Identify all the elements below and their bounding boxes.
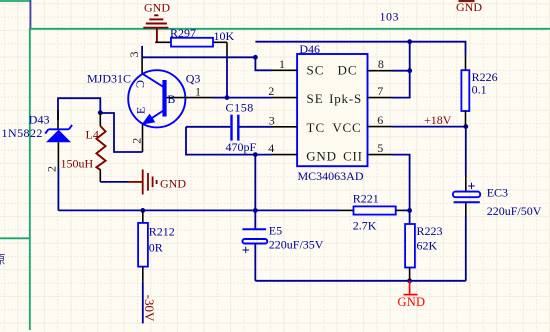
capacitor C158 [186, 115, 272, 141]
svg-text:R221: R221 [353, 191, 379, 205]
svg-text:D43: D43 [29, 112, 50, 126]
wire diode top loop [58, 98, 100, 120]
svg-text:EC3: EC3 [487, 185, 508, 199]
wire top VCC run [255, 42, 465, 55]
net label 103 [380, 10, 400, 24]
pin name Ipk-S [329, 91, 362, 106]
net label GND (overline) top right [456, 0, 482, 14]
wire collector horizontal [142, 56, 255, 58]
svg-text:B: B [167, 92, 175, 106]
value 220uF/50V [487, 204, 542, 218]
value 62K [417, 239, 438, 253]
pin Q3 base [167, 97, 213, 99]
green bus horizontal lower-left [0, 237, 30, 239]
designator R223 [417, 224, 443, 238]
pin 2 [272, 97, 297, 99]
wire ground rail lower [255, 280, 465, 282]
pin number 2 (Q3 emitter) [129, 138, 143, 144]
resistor R223 [405, 210, 415, 280]
svg-text:CII: CII [343, 149, 363, 164]
pin diode anode [57, 142, 59, 168]
svg-text:L4: L4 [86, 128, 99, 142]
svg-text:-30V: -30V [142, 295, 157, 322]
svg-text:2: 2 [44, 166, 58, 172]
svg-text:7: 7 [377, 84, 383, 98]
resistor R212 [138, 210, 148, 281]
diode D43 (schottky) [45, 125, 72, 142]
pin number 8 [378, 57, 384, 71]
polarity + (E5) [242, 244, 250, 259]
value 470pF [226, 140, 257, 154]
power port GND bottom [404, 281, 418, 295]
wire TC loop to GND pin [186, 127, 272, 155]
svg-text:0R: 0R [149, 240, 163, 254]
net label -30V [142, 295, 157, 322]
designator D43 [29, 112, 50, 126]
net label 原 (clipped) [0, 253, 6, 267]
pin name VCC [332, 120, 361, 135]
part name 1N5822 [2, 126, 43, 140]
svg-text:Ipk-S: Ipk-S [329, 91, 362, 106]
pin 1 [272, 69, 297, 71]
wire node to pin2 [227, 97, 272, 99]
resistor R226 [461, 55, 469, 127]
part name MC34063AD [298, 169, 364, 183]
power port GND top (label) [144, 1, 170, 15]
svg-text:TC: TC [307, 120, 326, 135]
value 150uH [61, 156, 94, 170]
svg-text:原: 原 [0, 253, 6, 267]
designator R226 [472, 70, 498, 84]
svg-text:2.7K: 2.7K [353, 219, 377, 233]
pin L4 bottom [99, 170, 101, 182]
svg-text:MC34063AD: MC34063AD [298, 169, 364, 183]
svg-text:Q3: Q3 [186, 71, 201, 85]
pin name DC [337, 63, 357, 78]
green bus horizontal main [30, 28, 550, 30]
wire node down to E5 [254, 155, 256, 211]
pin name GND [306, 149, 337, 164]
wire pin6 to +18V node [392, 126, 466, 128]
pin 5 [368, 154, 393, 156]
svg-text:R223: R223 [417, 224, 443, 238]
pin 8 [368, 70, 393, 72]
inductor L4 [96, 126, 105, 170]
svg-text:220uF/35V: 220uF/35V [269, 237, 324, 251]
value 2.7K [353, 219, 377, 233]
svg-text:8: 8 [378, 57, 384, 71]
designator L4 [86, 128, 99, 142]
pin 4 [272, 154, 297, 156]
pin 6 [368, 126, 393, 128]
svg-text:150uH: 150uH [61, 156, 94, 170]
junction node diode/L4 [98, 110, 103, 115]
svg-text:2: 2 [129, 138, 143, 144]
svg-text:SE: SE [307, 91, 324, 106]
label R297 [170, 26, 196, 40]
svg-text:10K: 10K [214, 29, 235, 43]
pin Q3 collector [141, 46, 143, 74]
junction node pin4/E5 [253, 152, 258, 157]
pin number 1 [279, 57, 285, 71]
svg-text:+18V: +18V [424, 113, 452, 127]
pin name TC [307, 120, 326, 135]
svg-text:E5: E5 [269, 224, 282, 238]
ground symbol top (inverted earth) [143, 15, 168, 42]
junction node pin8 [407, 68, 412, 73]
svg-text:3: 3 [269, 113, 275, 127]
pin number 7 [377, 84, 383, 98]
svg-text:SC: SC [307, 63, 325, 78]
wire pin8 to node [392, 70, 410, 72]
svg-text:5: 5 [377, 141, 383, 155]
pin number 5 [377, 141, 383, 155]
junction node GND rail [407, 278, 412, 283]
svg-text:MJD31C: MJD31C [87, 71, 131, 85]
pin number 3 [269, 113, 275, 127]
designator D46 [299, 42, 320, 56]
svg-text:103: 103 [380, 10, 400, 24]
value 0R [149, 240, 163, 254]
svg-text:C: C [133, 80, 147, 88]
wire L4 to ground [100, 181, 142, 183]
net label +18V [424, 113, 452, 127]
svg-text:2: 2 [268, 84, 274, 98]
pin number 2 [268, 84, 274, 98]
pin name SC [307, 63, 325, 78]
designator R212 [149, 224, 175, 238]
svg-text:220uF/50V: 220uF/50V [487, 204, 542, 218]
label C (collector) [133, 80, 147, 88]
op IC D46 MC34063AD body [297, 54, 367, 166]
junction node top wire [407, 39, 412, 44]
svg-text:R212: R212 [149, 224, 175, 238]
designator R221 [353, 191, 379, 205]
wire emitter Z-route [100, 113, 142, 152]
junction node base/SE [225, 95, 230, 100]
pin L4 top [99, 113, 101, 126]
svg-text:GND: GND [398, 295, 426, 309]
svg-text:C158: C158 [226, 100, 254, 114]
pin 7 [368, 97, 393, 99]
svg-text:0.1: 0.1 [472, 83, 487, 97]
wire bottom rail [58, 209, 353, 211]
svg-text:DC: DC [337, 63, 357, 78]
label B (base) [167, 92, 175, 106]
ground symbol mid (rotated earth) [143, 170, 157, 195]
pin Q3 emitter [142, 125, 144, 153]
value 0.1 [472, 83, 487, 97]
transistor Q3 [128, 70, 185, 127]
designator C158 [226, 100, 254, 114]
capacitor EC3 [453, 127, 480, 281]
svg-text:+: + [468, 179, 476, 194]
green bus vertical left [29, 28, 31, 330]
svg-text:1N5822: 1N5822 [2, 126, 43, 140]
junction node collector/SC [253, 55, 258, 60]
svg-text:62K: 62K [417, 239, 438, 253]
resistor R221 [354, 206, 410, 214]
designator EC3 [487, 185, 508, 199]
junction node +18V [463, 124, 468, 129]
svg-text:R297: R297 [170, 26, 196, 40]
part name MJD31C [87, 71, 131, 85]
wire pin7 up [392, 42, 410, 98]
svg-text:GND: GND [160, 177, 186, 191]
pin name CII [343, 149, 363, 164]
svg-text:VCC: VCC [332, 120, 361, 135]
value 220uF/35V [269, 237, 324, 251]
designator E5 [269, 224, 282, 238]
svg-text:1: 1 [195, 84, 201, 98]
pin 3 [272, 126, 297, 128]
label GND bottom [398, 295, 426, 309]
pin number 6 [377, 113, 383, 127]
svg-text:6: 6 [377, 113, 383, 127]
svg-text:E: E [134, 107, 148, 114]
svg-text:4: 4 [268, 141, 274, 155]
svg-text:+: + [242, 244, 250, 259]
svg-text:3: 3 [127, 52, 141, 58]
value 10K [214, 29, 235, 43]
wire node to pin1 [255, 57, 272, 70]
svg-text:D46: D46 [299, 42, 320, 56]
svg-text:GND: GND [306, 149, 337, 164]
svg-text:GND: GND [144, 1, 170, 15]
junction node R221/R223/pin5 [407, 208, 412, 213]
resistor R297 [155, 38, 227, 47]
junction node E5 [253, 208, 258, 213]
wire base to node [213, 97, 227, 99]
pin diode cathode [57, 110, 59, 129]
pin number 3 (Q3 collector) [127, 52, 141, 58]
pin number 2 (D43) [44, 166, 58, 172]
capacitor E5 [242, 210, 267, 280]
pin number 1 (Q3 base) [195, 84, 201, 98]
svg-text:1: 1 [279, 57, 285, 71]
pin number 4 [268, 141, 274, 155]
svg-text:470pF: 470pF [226, 140, 257, 154]
junction node R212 [140, 208, 145, 213]
polarity + (EC3) [468, 179, 476, 194]
wire R297 right down to base node [226, 42, 228, 97]
label E (emitter) [134, 107, 148, 114]
label GND mid [160, 177, 186, 191]
green bus line top edge [0, 0, 30, 2]
wire R212 to -30V [142, 282, 144, 324]
wire pin5 down [392, 155, 410, 211]
designator Q3 [186, 71, 201, 85]
pin name SE [307, 91, 324, 106]
wire diode to bottom rail [57, 168, 59, 210]
indigo bus segment left [29, 0, 31, 29]
